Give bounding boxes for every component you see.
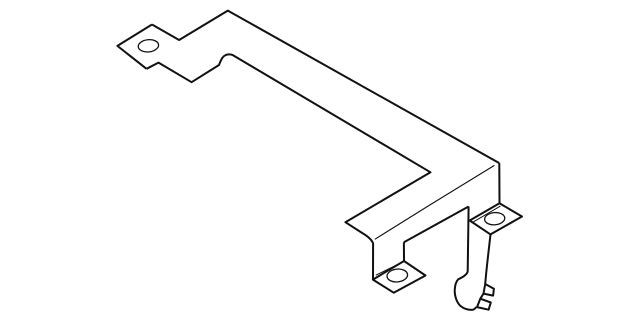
bracket top outer edge (tab top corner, valley, peak, to outer elbow) (152, 11, 499, 164)
clip lower tooth (477, 299, 491, 310)
clip upper tooth (484, 284, 494, 296)
clip right edge upper (485, 234, 490, 284)
bracket bottom edge (tab bottom, step, valley, hump, inner elbow, descending arm to left foot) (147, 54, 431, 279)
window top edge (flange front edge) (404, 207, 469, 243)
left foot tab (373, 261, 426, 293)
bracket right end edge (outer elbow down to right foot top corner) (498, 163, 500, 203)
clip edge between teeth (480, 294, 483, 299)
left foot hole (386, 268, 408, 283)
right foot tab (470, 203, 522, 234)
left tab hole (138, 39, 160, 53)
left mounting tab edges (117, 25, 152, 69)
clip left edge with J-hook bottom (455, 207, 477, 310)
bracket inner thickness line from elbow toward left foot bend (375, 165, 495, 239)
left foot bend thickness line (376, 262, 404, 276)
right foot hole (484, 212, 505, 226)
right foot bend thickness line (472, 206, 501, 223)
window left edge (403, 242, 405, 261)
